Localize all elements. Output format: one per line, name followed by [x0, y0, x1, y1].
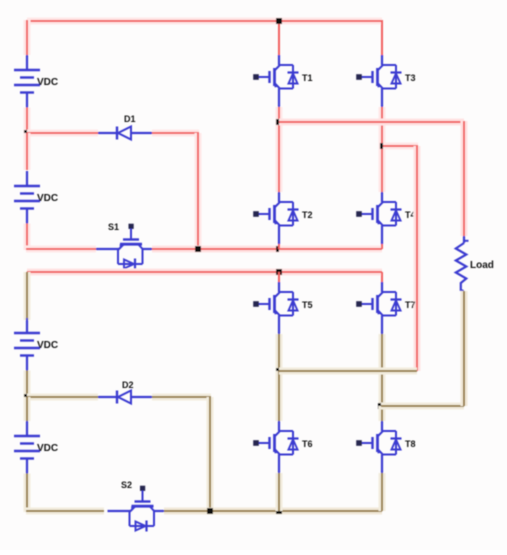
- svg-text:VDC: VDC: [37, 77, 58, 88]
- wire T7 collector drop: [381, 272, 383, 282]
- wire T5-T6 link: [276, 371, 283, 421]
- wire node C to T4: [279, 246, 382, 253]
- svg-text:T6: T6: [302, 439, 313, 449]
- diode D1: [98, 114, 152, 140]
- svg-text:T3: T3: [405, 73, 416, 83]
- wire T3 collector drop: [381, 20, 383, 55]
- transistor T4 (IGBT): [356, 192, 415, 244]
- wire node A2 to B2: [24, 133, 31, 170]
- wire bottom rail left: [26, 508, 104, 515]
- node L (T7/T8 midpoint): [378, 403, 384, 409]
- wire bridge link vertical: [414, 146, 421, 371]
- wire T7-T8 link: [379, 406, 386, 421]
- wire node E to load column: [279, 119, 464, 126]
- battery B2 (VDC): [14, 171, 58, 224]
- svg-text:T8: T8: [405, 439, 416, 449]
- wire T1 collector: [278, 20, 280, 55]
- transistor T2 (IGBT): [253, 192, 312, 244]
- wire node L right: [381, 403, 464, 410]
- switch S2 (IGBT): [108, 480, 165, 532]
- svg-text:T5: T5: [302, 300, 313, 310]
- svg-text:VDC: VDC: [37, 443, 58, 454]
- wire D2 right: [152, 394, 211, 401]
- battery B4 (VDC): [14, 421, 58, 474]
- wire T8 emitter: [379, 473, 386, 511]
- wire T6 emitter: [276, 473, 283, 511]
- wire T4 emitter: [381, 244, 383, 249]
- transistor T5 (IGBT): [253, 282, 312, 334]
- wire T5 collector: [278, 272, 280, 282]
- diode D2: [98, 380, 152, 404]
- svg-text:D1: D1: [124, 114, 136, 124]
- wire T1-T2 link: [276, 107, 283, 192]
- wire load column down: [461, 121, 468, 236]
- node I (T6 emitter junction): [276, 508, 282, 514]
- svg-text:VDC: VDC: [37, 193, 58, 204]
- node D (top rail / T1): [276, 18, 282, 24]
- svg-text:T1: T1: [302, 73, 313, 83]
- wire T2 emitter: [278, 244, 280, 249]
- svg-text:VDC: VDC: [37, 340, 58, 351]
- svg-text:S2: S2: [121, 480, 132, 490]
- wire load bottom column: [461, 291, 468, 406]
- wire lower top rail: [27, 269, 382, 276]
- wire bottom-left to S1: [26, 246, 96, 253]
- transistor T7 (IGBT): [356, 282, 415, 334]
- wire left top: [24, 20, 31, 55]
- transistor T8 (IGBT): [356, 421, 415, 473]
- wire node K to bridge link: [279, 368, 417, 375]
- wire B3 to node G: [24, 371, 31, 399]
- battery B3 (VDC): [14, 318, 58, 371]
- svg-text:D2: D2: [122, 380, 134, 390]
- wire T3-T4 link: [379, 107, 386, 192]
- node C (T2 emitter junction): [276, 246, 282, 252]
- svg-text:Load: Load: [470, 260, 494, 271]
- node G (between VDC3 and VDC4): [24, 394, 30, 400]
- transistor T1 (IGBT): [253, 55, 312, 107]
- svg-text:S1: S1: [108, 222, 119, 232]
- node K (T5/T6 midpoint): [276, 368, 282, 374]
- wire top rail: [27, 18, 382, 25]
- node B (D1/S1 junction): [195, 246, 201, 252]
- wire B4 down: [24, 474, 31, 513]
- wire node G to D2: [27, 394, 98, 401]
- wire T5 emitter brown: [276, 334, 283, 372]
- transistor T6 (IGBT): [253, 421, 312, 473]
- wire left lower top: [24, 272, 31, 320]
- wire D1 drop: [195, 133, 202, 249]
- wire S1 to node B: [152, 246, 280, 253]
- wire node G to B4: [24, 397, 31, 421]
- svg-text:T2: T2: [302, 210, 313, 220]
- wire B1 to node A: [24, 108, 31, 135]
- wire bottom rail right: [164, 508, 382, 515]
- node A (between VDC1 and VDC2): [24, 130, 30, 136]
- node H (D2/S2 junction): [207, 508, 213, 514]
- wire T7 emitter brown: [379, 334, 386, 407]
- resistor Load: [456, 236, 494, 291]
- transistor T3 (IGBT): [356, 55, 415, 107]
- node J (lower rail / T5): [276, 269, 282, 275]
- wire node A to D1: [27, 130, 98, 137]
- wire node F right: [383, 143, 418, 150]
- switch S1 (IGBT): [96, 222, 153, 270]
- wire B2 down: [24, 224, 31, 251]
- battery B1 (VDC): [14, 55, 58, 108]
- wire D1 right: [152, 130, 199, 137]
- wire D2 drop: [207, 397, 214, 511]
- node E (T1/T2 midpoint): [276, 119, 282, 125]
- node F (T3/T4 midpoint): [380, 143, 386, 149]
- svg-text:T7: T7: [405, 300, 416, 310]
